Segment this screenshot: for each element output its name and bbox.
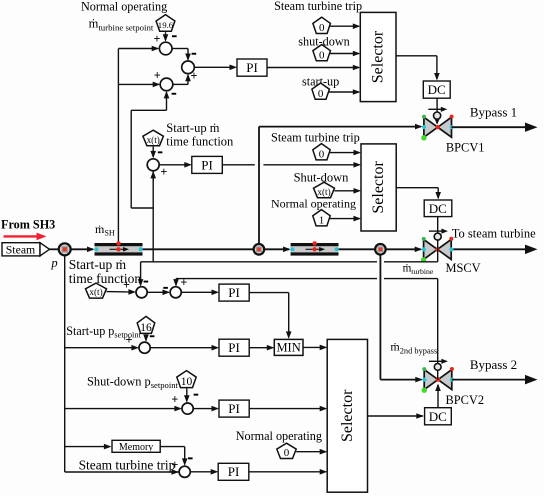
svg-text:Normal operating: Normal operating	[236, 429, 322, 443]
svg-text:Selector: Selector	[339, 389, 356, 442]
svg-text:PI: PI	[228, 401, 240, 416]
svg-text:PI: PI	[201, 158, 213, 173]
svg-text:Normal operating: Normal operating	[271, 196, 356, 210]
svg-text:+: +	[191, 69, 198, 83]
svg-text:Bypass 1: Bypass 1	[470, 105, 517, 120]
svg-text:+: +	[180, 276, 187, 290]
svg-text:x(t): x(t)	[317, 187, 330, 197]
svg-text:MSCV: MSCV	[445, 261, 480, 275]
svg-text:10: 10	[181, 376, 193, 388]
svg-text:Steam turbine trip: Steam turbine trip	[79, 458, 176, 473]
svg-text:0: 0	[319, 149, 325, 161]
svg-text:p: p	[50, 256, 57, 270]
svg-text:PI: PI	[246, 60, 258, 75]
svg-text:+: +	[160, 165, 167, 179]
svg-text:Shut-down: Shut-down	[294, 171, 350, 185]
svg-text:0: 0	[319, 22, 325, 34]
svg-text:+: +	[123, 278, 130, 292]
svg-text:Selector: Selector	[370, 161, 387, 214]
svg-text:BPCV1: BPCV1	[446, 141, 485, 155]
svg-text:Memory: Memory	[119, 442, 153, 453]
svg-text:Bypass 2: Bypass 2	[470, 357, 517, 372]
svg-text:x(t): x(t)	[147, 135, 160, 145]
svg-text:Selector: Selector	[370, 30, 387, 83]
svg-text:DC: DC	[429, 409, 447, 424]
svg-text:Normal operating: Normal operating	[81, 0, 167, 14]
svg-text:From SH3: From SH3	[1, 217, 55, 231]
svg-text:PI: PI	[228, 285, 240, 300]
svg-text:1: 1	[319, 215, 325, 227]
svg-text:Start-up ṁ: Start-up ṁ	[69, 257, 127, 272]
svg-text:0: 0	[284, 447, 290, 459]
svg-text:BPCV2: BPCV2	[446, 393, 485, 407]
svg-text:DC: DC	[429, 201, 447, 216]
svg-text:Steam turbine trip: Steam turbine trip	[274, 0, 362, 13]
svg-text:Steam: Steam	[6, 243, 36, 257]
svg-text:Steam turbine trip: Steam turbine trip	[271, 131, 360, 145]
svg-text:19.6: 19.6	[158, 20, 174, 30]
svg-text:Start-up ṁ: Start-up ṁ	[166, 121, 219, 135]
svg-text:PI: PI	[228, 464, 240, 479]
svg-text:+: +	[154, 32, 161, 46]
svg-text:x(t): x(t)	[89, 287, 102, 297]
svg-text:PI: PI	[228, 340, 240, 355]
svg-text:DC: DC	[428, 82, 446, 97]
svg-text:To steam turbine: To steam turbine	[452, 227, 536, 241]
svg-text:0: 0	[318, 88, 324, 100]
svg-text:0: 0	[319, 49, 325, 61]
svg-text:+: +	[171, 393, 178, 407]
svg-text:time function: time function	[166, 135, 234, 149]
svg-text:+: +	[154, 68, 161, 82]
svg-text:16: 16	[140, 322, 152, 334]
svg-text:MIN: MIN	[276, 341, 300, 355]
svg-text:time function: time function	[69, 271, 142, 286]
